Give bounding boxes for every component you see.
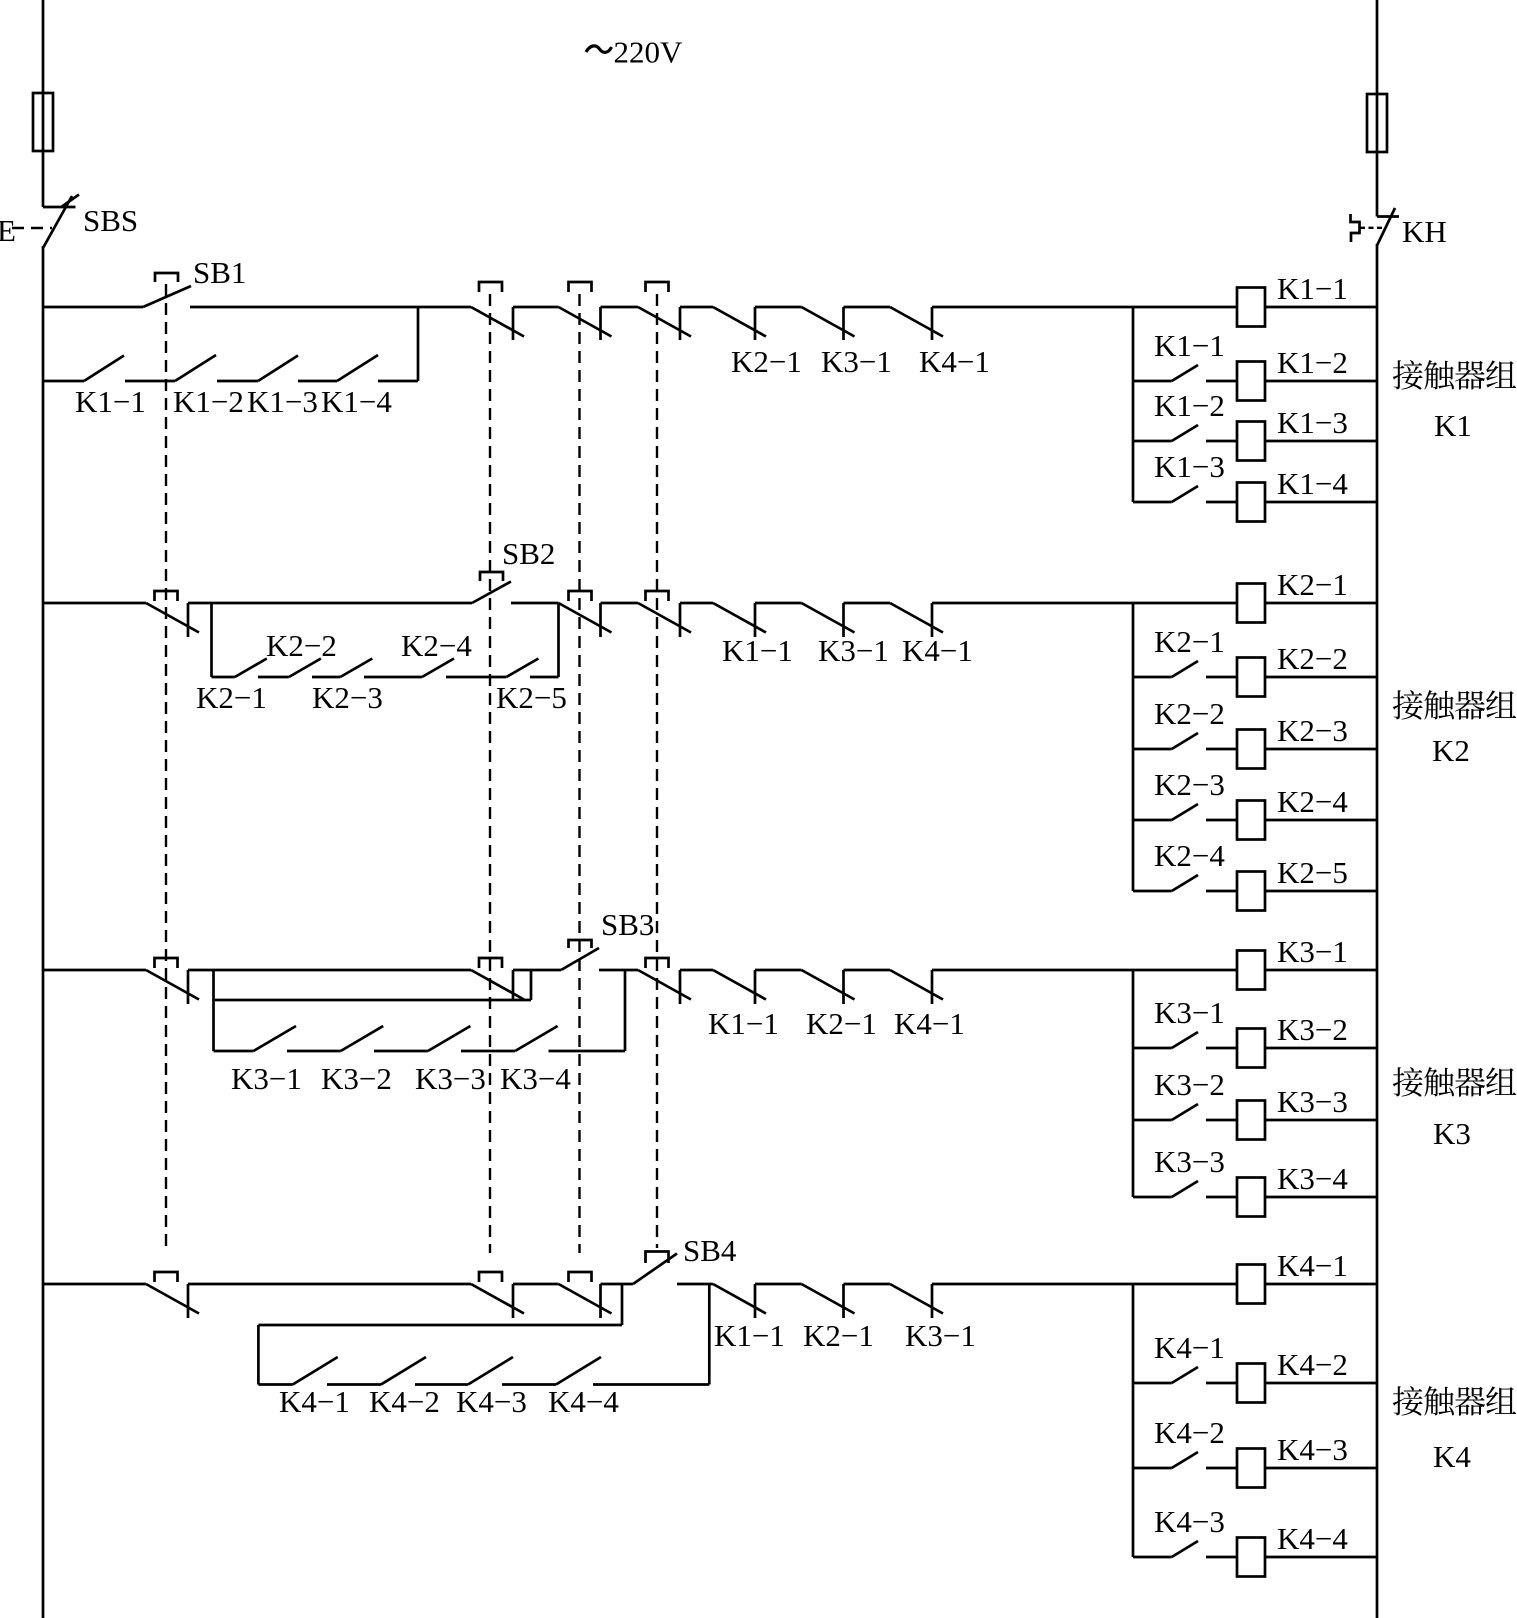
wire coil K4-1 to rail bbox=[1265, 1283, 1377, 1286]
svg-text:K4−1: K4−1 bbox=[1277, 1248, 1348, 1283]
wire bbox=[446, 676, 506, 679]
coil K3-3 bbox=[1237, 1101, 1265, 1140]
wire bbox=[755, 602, 802, 605]
contact K1-3 NO cascade bbox=[1133, 501, 1172, 504]
svg-text:K1−3: K1−3 bbox=[247, 384, 318, 419]
wire bbox=[125, 380, 175, 383]
wire bbox=[217, 380, 258, 383]
svg-text:K2−3: K2−3 bbox=[1277, 713, 1348, 748]
pushbutton SB2 NO contact bbox=[472, 582, 511, 604]
fuse FU2 right bbox=[1367, 94, 1387, 152]
coil K2-3 bbox=[1237, 730, 1265, 769]
pushbutton SB3 link (dashed) bbox=[578, 294, 580, 1253]
label contactor group K1 (Chinese) bbox=[1393, 360, 1423, 390]
svg-text:K3−4: K3−4 bbox=[1277, 1161, 1348, 1196]
svg-text:K3−4: K3−4 bbox=[500, 1061, 571, 1096]
contact K3-4 NO self-hold bbox=[515, 1026, 558, 1051]
thermal overload KH bbox=[1377, 215, 1399, 218]
wire bbox=[378, 380, 418, 383]
svg-text:K1−3: K1−3 bbox=[1154, 449, 1225, 484]
wire bbox=[511, 602, 559, 605]
wire bbox=[188, 1283, 471, 1286]
pushbutton SB3 NO contact bbox=[561, 948, 599, 970]
svg-text:K2−1: K2−1 bbox=[731, 344, 802, 379]
contact SB2 NC (rung3) bbox=[471, 970, 524, 1000]
contact K2-4 NO self-hold bbox=[422, 659, 454, 678]
label contactor group K2 (Chinese) bbox=[1393, 690, 1423, 720]
contact K3-2 NO cascade bbox=[1133, 1119, 1172, 1122]
contact SB4 NC (rung1) bbox=[638, 307, 691, 337]
wire bbox=[461, 1050, 515, 1053]
pushbutton SB4 NO contact bbox=[633, 1254, 677, 1285]
svg-text:K3−2: K3−2 bbox=[1154, 1067, 1225, 1102]
svg-text:K3−1: K3−1 bbox=[818, 633, 889, 668]
contact K3-1 NC interlock bbox=[890, 1284, 943, 1314]
pushbutton SB1 NO contact bbox=[143, 286, 191, 307]
svg-text:K3−3: K3−3 bbox=[1154, 1144, 1225, 1179]
svg-text:K1−4: K1−4 bbox=[321, 384, 392, 419]
svg-text:K1−2: K1−2 bbox=[173, 384, 244, 419]
coil K3-1 bbox=[1237, 951, 1265, 990]
svg-text:K4−2: K4−2 bbox=[369, 1384, 440, 1419]
svg-text:K3−2: K3−2 bbox=[1277, 1012, 1348, 1047]
wire K4 self-hold branch bbox=[621, 1284, 624, 1325]
wire bbox=[844, 306, 891, 309]
wire bbox=[755, 306, 802, 309]
contact SB1 NC (rung2) bbox=[146, 603, 199, 633]
contact SB3 NC (rung1) bbox=[559, 307, 612, 337]
contact K1-2 NO cascade bbox=[1133, 440, 1172, 443]
pushbutton SB4 link (dashed) bbox=[656, 294, 658, 1248]
svg-text:K1−4: K1−4 bbox=[1277, 466, 1348, 501]
contact K2-1 NC interlock bbox=[802, 1284, 855, 1314]
label ~220V bbox=[586, 46, 612, 52]
contact K3-1 NO cascade bbox=[1133, 1047, 1172, 1050]
svg-text:K4: K4 bbox=[1433, 1439, 1471, 1474]
wire bbox=[298, 380, 337, 383]
svg-text:K2−1: K2−1 bbox=[803, 1318, 874, 1353]
wire coil K2-5 to rail bbox=[1265, 890, 1377, 893]
contact K4-3 NO cascade bbox=[1133, 1556, 1172, 1559]
wire bbox=[513, 969, 561, 972]
label contactor group K3 (Chinese) bbox=[1393, 1067, 1423, 1097]
wire bbox=[601, 1283, 634, 1286]
wire bbox=[513, 1283, 559, 1286]
svg-text:K4−1: K4−1 bbox=[279, 1384, 350, 1419]
contact K2-2 NO cascade bbox=[1133, 748, 1172, 751]
contact K4-1 NC interlock bbox=[890, 970, 943, 1000]
wire bbox=[415, 1383, 468, 1386]
svg-text:K1−3: K1−3 bbox=[1277, 405, 1348, 440]
wire coil K2-3 to rail bbox=[1265, 748, 1377, 751]
wire self-hold K1 rejoin bbox=[417, 307, 420, 381]
svg-text:K1−2: K1−2 bbox=[1154, 388, 1225, 423]
svg-text:K1−1: K1−1 bbox=[714, 1318, 785, 1353]
svg-text:K2−5: K2−5 bbox=[496, 680, 567, 715]
wire coil K3-2 to rail bbox=[1265, 1047, 1377, 1050]
contact SB1 NC (rung3) bbox=[146, 970, 199, 1000]
svg-text:K4−1: K4−1 bbox=[894, 1006, 965, 1041]
pushbutton SB2 link (dashed) bbox=[489, 294, 491, 1253]
contact K4-3 NO self-hold bbox=[468, 1357, 513, 1385]
wire bbox=[513, 306, 559, 309]
contact K1-1 NO self-hold bbox=[84, 356, 124, 382]
contact SB4 NC (rung3) bbox=[638, 970, 691, 1000]
contact SB1 NC (rung4) bbox=[146, 1284, 199, 1314]
wire self-hold K1 row bbox=[43, 380, 84, 383]
wire rung1 mid bbox=[190, 306, 471, 309]
svg-text:K3: K3 bbox=[1433, 1116, 1471, 1151]
wire bbox=[327, 1383, 381, 1386]
contact K2-1 NO self-hold bbox=[235, 659, 267, 678]
wire bbox=[549, 1050, 626, 1053]
svg-text:E: E bbox=[0, 213, 16, 248]
svg-text:K3−2: K3−2 bbox=[321, 1061, 392, 1096]
coil K4-1 bbox=[1237, 1265, 1265, 1304]
svg-text:K2−4: K2−4 bbox=[1154, 838, 1225, 873]
wire bbox=[364, 676, 422, 679]
svg-text:K2−3: K2−3 bbox=[312, 680, 383, 715]
contact K2-1 NC interlock bbox=[713, 307, 766, 337]
svg-text:K4−2: K4−2 bbox=[1277, 1347, 1348, 1382]
contact K4-1 NC interlock bbox=[890, 603, 943, 633]
svg-text:K2−1: K2−1 bbox=[1154, 624, 1225, 659]
svg-text:SB1: SB1 bbox=[193, 255, 246, 290]
coil K3-2 bbox=[1237, 1029, 1265, 1068]
contact K4-4 NO self-hold bbox=[556, 1357, 601, 1385]
wire bbox=[287, 1050, 341, 1053]
svg-text:K3−1: K3−1 bbox=[821, 344, 892, 379]
svg-text:K4−4: K4−4 bbox=[548, 1384, 619, 1419]
wire bbox=[188, 602, 472, 605]
wire coil K2-2 to rail bbox=[1265, 676, 1377, 679]
svg-text:SBS: SBS bbox=[83, 203, 138, 238]
svg-text:K4−1: K4−1 bbox=[902, 633, 973, 668]
svg-text:K2−3: K2−3 bbox=[1154, 767, 1225, 802]
contact SB2 NC (rung1) bbox=[471, 307, 524, 337]
svg-text:K1−1: K1−1 bbox=[75, 384, 146, 419]
wire self-hold K4 rejoin bbox=[708, 1284, 711, 1385]
coil K2-2 bbox=[1237, 658, 1265, 697]
wire K3 group branch bbox=[1132, 970, 1135, 1197]
fuse FU1 left bbox=[33, 93, 53, 151]
coil K4-4 bbox=[1237, 1538, 1265, 1577]
svg-text:K2−4: K2−4 bbox=[1277, 784, 1348, 819]
contact K3-2 NO self-hold bbox=[341, 1026, 384, 1051]
coil K1-2 bbox=[1237, 362, 1265, 401]
contact K2-2 NO self-hold bbox=[289, 659, 321, 678]
contact SB3 NC (rung2) bbox=[559, 603, 612, 633]
wire coil K4-2 to rail bbox=[1265, 1382, 1377, 1385]
svg-text:K4−1: K4−1 bbox=[1154, 1330, 1225, 1365]
wire K1 group branch bbox=[1132, 307, 1135, 502]
coil K1-3 bbox=[1237, 422, 1265, 461]
wire bbox=[755, 1283, 802, 1286]
wire coil K2-1 to rail bbox=[1265, 602, 1377, 605]
contact K3-3 NO cascade bbox=[1133, 1196, 1172, 1199]
svg-text:K1−1: K1−1 bbox=[1154, 328, 1225, 363]
wire bbox=[844, 602, 891, 605]
svg-text:K2−1: K2−1 bbox=[196, 680, 267, 715]
wire self-hold K4 row bbox=[258, 1383, 292, 1386]
contact SB4 NC (rung2) bbox=[638, 603, 691, 633]
wire bbox=[844, 1283, 891, 1286]
left power rail bbox=[42, 0, 45, 207]
contact K2-1 NO cascade bbox=[1133, 676, 1172, 679]
svg-text:K2−1: K2−1 bbox=[1277, 567, 1348, 602]
wire rung1 left bbox=[43, 306, 143, 309]
contact K1-3 NO self-hold bbox=[258, 356, 298, 382]
contact K1-1 NC interlock bbox=[713, 1284, 766, 1314]
svg-text:K3−1: K3−1 bbox=[1277, 934, 1348, 969]
wire bbox=[502, 1383, 556, 1386]
coil K1-1 bbox=[1237, 288, 1265, 327]
wire bbox=[599, 969, 638, 972]
contact K4-1 NC interlock bbox=[890, 307, 943, 337]
wire bbox=[188, 969, 471, 972]
contact K1-2 NO self-hold bbox=[175, 355, 216, 381]
svg-text:K1−2: K1−2 bbox=[1277, 345, 1348, 380]
wire SB2 bypass bbox=[214, 999, 532, 1002]
wire bbox=[601, 306, 639, 309]
wire bbox=[258, 676, 289, 679]
coil K2-1 bbox=[1237, 584, 1265, 623]
wire bbox=[530, 676, 559, 679]
wire coil K1-2 to rail bbox=[1265, 380, 1377, 383]
wire self-hold K3 row bbox=[214, 1050, 254, 1053]
coil K1-4 bbox=[1237, 483, 1265, 522]
wire coil K3-1 to rail bbox=[1265, 969, 1377, 972]
svg-text:K2−2: K2−2 bbox=[1154, 696, 1225, 731]
svg-text:K4−3: K4−3 bbox=[1277, 1432, 1348, 1467]
svg-text:SB4: SB4 bbox=[683, 1233, 737, 1268]
wire bbox=[680, 306, 713, 309]
contact K3-1 NO self-hold bbox=[254, 1026, 297, 1051]
wire bbox=[755, 969, 802, 972]
svg-text:SB2: SB2 bbox=[502, 536, 555, 571]
contact K2-3 NO cascade bbox=[1133, 819, 1172, 822]
svg-text:K1−1: K1−1 bbox=[1277, 271, 1348, 306]
contact K2-1 NC interlock bbox=[802, 970, 855, 1000]
svg-text:K3−1: K3−1 bbox=[905, 1318, 976, 1353]
pushbutton SB1 link (dashed) bbox=[165, 284, 167, 1253]
svg-text:K4−4: K4−4 bbox=[1277, 1521, 1348, 1556]
contact K3-1 NC interlock bbox=[802, 603, 855, 633]
contact K2-3 NO self-hold bbox=[340, 659, 372, 678]
svg-text:K2−2: K2−2 bbox=[1277, 641, 1348, 676]
contact K1-1 NC interlock bbox=[713, 603, 766, 633]
svg-text:K2−1: K2−1 bbox=[806, 1006, 877, 1041]
wire bbox=[374, 1050, 428, 1053]
wire rung2 to coil bbox=[932, 602, 1237, 605]
wire coil K4-3 to rail bbox=[1265, 1467, 1377, 1470]
contact K2-5 NO self-hold bbox=[506, 659, 538, 678]
wire coil K1-4 to rail bbox=[1265, 501, 1377, 504]
wire coil K3-3 to rail bbox=[1265, 1119, 1377, 1122]
svg-text:K4−3: K4−3 bbox=[456, 1384, 527, 1419]
wire bbox=[312, 676, 340, 679]
contact K3-3 NO self-hold bbox=[428, 1026, 471, 1051]
contact K4-2 NO self-hold bbox=[381, 1357, 426, 1385]
contact K1-4 NO self-hold bbox=[337, 355, 378, 381]
svg-text:SB3: SB3 bbox=[601, 907, 654, 942]
wire bbox=[844, 969, 891, 972]
svg-text:K2: K2 bbox=[1432, 733, 1470, 768]
contact K1-1 NC interlock bbox=[713, 970, 766, 1000]
wire bbox=[680, 969, 713, 972]
coil K3-4 bbox=[1237, 1178, 1265, 1217]
wire bbox=[601, 602, 639, 605]
wire self-hold K3 rejoin bbox=[624, 970, 627, 1051]
contact SB3 NC (rung4) bbox=[559, 1284, 612, 1314]
wire coil K1-3 to rail bbox=[1265, 440, 1377, 443]
wire self-hold K2 row bbox=[212, 676, 235, 679]
svg-text:K3−3: K3−3 bbox=[1277, 1084, 1348, 1119]
wire bbox=[593, 1383, 709, 1386]
svg-text:K4−2: K4−2 bbox=[1154, 1415, 1225, 1450]
svg-text:K2−4: K2−4 bbox=[401, 628, 472, 663]
wire rung2 left bbox=[43, 602, 146, 605]
contact K1-1 NO cascade bbox=[1133, 380, 1172, 383]
label contactor group K4 (Chinese) bbox=[1393, 1386, 1423, 1416]
wire bbox=[677, 1283, 713, 1286]
wire rung4 to coil bbox=[932, 1283, 1237, 1286]
coil K2-4 bbox=[1237, 801, 1265, 840]
coil K4-3 bbox=[1237, 1449, 1265, 1488]
wire self-hold K2 rejoin bbox=[557, 603, 560, 677]
svg-text:KH: KH bbox=[1402, 214, 1447, 249]
svg-text:220V: 220V bbox=[614, 35, 684, 70]
svg-text:K4−1: K4−1 bbox=[919, 344, 990, 379]
svg-text:K3−1: K3−1 bbox=[231, 1061, 302, 1096]
svg-text:K1−1: K1−1 bbox=[722, 633, 793, 668]
contact K4-1 NO cascade bbox=[1133, 1382, 1172, 1385]
coil K4-2 bbox=[1237, 1364, 1265, 1403]
svg-text:K1−1: K1−1 bbox=[708, 1006, 779, 1041]
contact SB2 NC (rung4) bbox=[471, 1284, 524, 1314]
wire rung3 left bbox=[43, 969, 146, 972]
svg-text:K3−3: K3−3 bbox=[415, 1061, 486, 1096]
svg-text:K1: K1 bbox=[1434, 408, 1472, 443]
coil K2-5 bbox=[1237, 872, 1265, 911]
wire bbox=[680, 602, 713, 605]
svg-text:K4−3: K4−3 bbox=[1154, 1504, 1225, 1539]
wire K4 group branch bbox=[1132, 1284, 1135, 1557]
wire coil K2-4 to rail bbox=[1265, 819, 1377, 822]
wire K2 group branch bbox=[1132, 603, 1135, 891]
wire rung4 left bbox=[43, 1283, 146, 1286]
wire coil K4-4 to rail bbox=[1265, 1556, 1377, 1559]
svg-text:K3−1: K3−1 bbox=[1154, 995, 1225, 1030]
svg-text:K2−5: K2−5 bbox=[1277, 855, 1348, 890]
contact K4-1 NO self-hold bbox=[293, 1357, 338, 1385]
wire rung3 to coil bbox=[932, 969, 1237, 972]
contact K3-1 NC interlock bbox=[802, 307, 855, 337]
wire rung1 to coil bbox=[932, 306, 1237, 309]
contact K2-4 NO cascade bbox=[1133, 890, 1172, 893]
wire K2 self-hold branch bbox=[210, 603, 213, 677]
wire K3 self-hold branch bbox=[212, 970, 215, 1051]
svg-text:K2−2: K2−2 bbox=[266, 628, 337, 663]
contact K4-2 NO cascade bbox=[1133, 1467, 1172, 1470]
switch SBS bbox=[43, 206, 76, 209]
right power rail bbox=[1376, 0, 1379, 217]
wire coil K1-1 to rail bbox=[1265, 306, 1377, 309]
wire coil K3-4 to rail bbox=[1265, 1196, 1377, 1199]
